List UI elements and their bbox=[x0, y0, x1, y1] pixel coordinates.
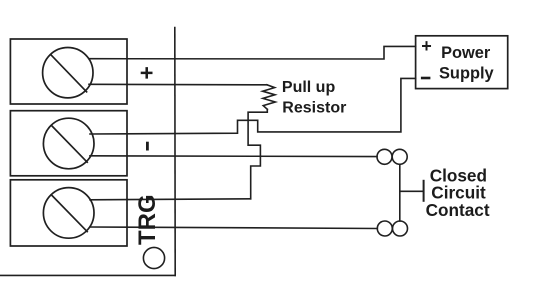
label power supply minus pin bbox=[421, 77, 431, 80]
wire contact actuator stub bbox=[400, 190, 424, 192]
wire + terminal to power supply plus bbox=[89, 46, 416, 59]
screw slot diagonal T2 bbox=[52, 126, 88, 163]
wire + terminal to pull-up resistor top bbox=[89, 83, 267, 86]
svg-text:TRG: TRG bbox=[134, 194, 161, 245]
wire minus terminal to contact top-left circle bbox=[90, 155, 377, 158]
screw circle T2 bbox=[43, 118, 94, 169]
svg-text:Supply: Supply bbox=[439, 65, 495, 83]
screw slot diagonal T3 bbox=[52, 195, 88, 232]
label minus terminal bbox=[146, 142, 149, 151]
svg-text:Resistor: Resistor bbox=[282, 100, 346, 117]
screw circle T1 bbox=[43, 47, 93, 97]
wire TRG terminal to contact bottom-left circle bbox=[90, 227, 377, 229]
terminal block outline box 3 bbox=[10, 180, 127, 246]
terminal block outline box 1 bbox=[10, 39, 127, 104]
svg-text:+: + bbox=[421, 36, 432, 56]
module edge vertical line bbox=[174, 28, 176, 276]
wire TRG terminal to resistor descender junction bbox=[90, 199, 251, 200]
contact circle top-right bbox=[392, 149, 407, 164]
power supply U1 box bbox=[416, 36, 508, 89]
svg-text:Pull up: Pull up bbox=[282, 79, 336, 96]
contact circle bottom-left bbox=[377, 221, 392, 236]
svg-text:Power: Power bbox=[441, 44, 491, 62]
screw slot diagonal T1 bbox=[51, 55, 87, 92]
svg-text:Contact: Contact bbox=[426, 200, 490, 220]
contact circle bottom-right bbox=[393, 221, 408, 236]
svg-text:+: + bbox=[134, 66, 160, 79]
contact circle top-left bbox=[377, 149, 392, 164]
wire resistor bottom descending jog to TRG line bbox=[248, 109, 267, 199]
contact actuator bar bbox=[423, 181, 425, 201]
screw circle T3 bbox=[43, 188, 94, 239]
module mounting hole circle bbox=[143, 247, 164, 268]
terminal block outline box 2 bbox=[10, 111, 127, 176]
wire contact link vertical bbox=[399, 164, 401, 221]
resistor R pull-up zigzag bbox=[263, 85, 276, 110]
wire minus terminal to power supply minus with hop bbox=[90, 78, 416, 134]
module bottom edge wire bbox=[0, 274, 175, 276]
